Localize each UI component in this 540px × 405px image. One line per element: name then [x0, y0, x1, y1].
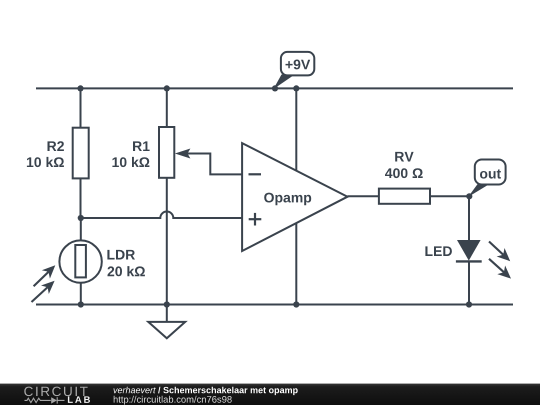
junction dot node A	[78, 215, 84, 221]
wire op-amp negative supply	[295, 224, 297, 305]
photoresistor LDR	[32, 218, 102, 305]
label Opamp	[264, 193, 311, 206]
net label +9V	[274, 52, 314, 89]
label LDR	[107, 250, 135, 260]
wire noninverting input from node A with hop over R1 wire	[81, 212, 242, 218]
wire out node to LED	[468, 196, 470, 240]
label R1	[133, 141, 150, 151]
value label R1 10 kΩ	[112, 157, 149, 167]
junction dot out node	[466, 193, 472, 199]
junction dot bottom rail LDR	[78, 301, 84, 307]
junction dot top rail R2	[77, 85, 83, 91]
ground	[148, 305, 185, 339]
value label RV 400 Ω	[385, 168, 423, 178]
CircuitLab footer bar	[0, 384, 540, 405]
net label out	[469, 160, 506, 197]
label R2	[48, 141, 64, 151]
junction dot top rail R1	[164, 85, 170, 91]
resistor R2	[73, 88, 89, 218]
resistor RV	[379, 189, 430, 204]
wire op-amp output	[348, 195, 379, 197]
value label LDR 20 kΩ	[108, 266, 145, 276]
label +9V	[286, 60, 311, 70]
potentiometer R1	[159, 88, 242, 304]
junction dot top rail +9V	[272, 85, 278, 91]
label out	[480, 169, 501, 178]
wire op-amp positive supply	[295, 88, 297, 170]
junction dot bottom rail ground	[164, 301, 170, 307]
junction dot bottom rail op-amp supply	[293, 301, 299, 307]
label LED	[425, 246, 452, 256]
junction dot top rail op-amp supply	[293, 85, 299, 91]
LED D1	[456, 240, 511, 305]
wire top supply rail	[36, 87, 513, 89]
value label R2 10 kΩ	[27, 157, 64, 167]
label RV	[395, 152, 413, 162]
footer url	[114, 396, 232, 405]
footer attribution title	[158, 387, 298, 395]
wire bottom rail	[36, 304, 513, 306]
CircuitLab logo	[24, 387, 90, 404]
op-amp U1	[242, 143, 347, 251]
footer attribution author	[114, 387, 156, 394]
wire RV to out node	[430, 195, 469, 197]
junction dot bottom rail LED	[466, 301, 472, 307]
